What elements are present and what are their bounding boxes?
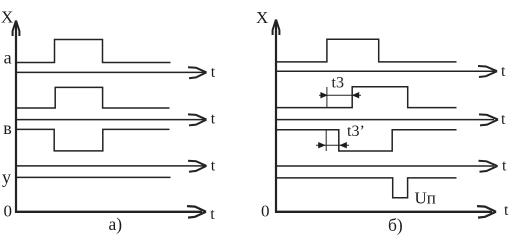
svg-text:t: t <box>502 157 507 174</box>
svg-text:t: t <box>211 158 216 175</box>
svg-text:t: t <box>501 111 506 128</box>
right bottom time axis (0) <box>275 211 492 213</box>
svg-text:0: 0 <box>4 201 13 220</box>
svg-text:t: t <box>504 202 509 219</box>
right time axis 1 arrowhead <box>478 66 497 77</box>
svg-text:а): а) <box>109 214 123 234</box>
svg-text:t: t <box>501 63 506 80</box>
right time axis 2 <box>276 119 494 121</box>
svg-text:t: t <box>211 111 216 128</box>
right time axis 1 <box>276 70 494 72</box>
left diagram vertical axis X <box>15 21 17 214</box>
left axis up-arrowhead <box>13 21 20 37</box>
left bottom time axis (0) <box>15 211 202 213</box>
t3 right dimension arrowhead <box>352 92 360 98</box>
right axis up-arrowhead <box>273 20 280 36</box>
waveform 2 (left, pulse) <box>16 87 170 108</box>
right time axis 3 arrowhead <box>479 161 498 172</box>
svg-text:t3’: t3’ <box>347 123 365 140</box>
right time axis 2 arrowhead <box>479 114 498 125</box>
left time axis 3 arrowhead <box>188 161 207 172</box>
waveform 3 (right, inverted delayed pulse) <box>276 130 457 151</box>
t3' reference tick <box>325 130 327 151</box>
svg-text:0: 0 <box>261 201 270 220</box>
waveform 2 (right, delayed pulse) <box>276 87 457 108</box>
t3 reference tick <box>326 87 328 108</box>
waveform v (left, inverted pulse) <box>16 129 170 151</box>
waveform a (left, pulse) <box>16 40 171 63</box>
svg-text:X: X <box>256 8 268 27</box>
left time axis 2 arrowhead <box>188 114 207 125</box>
waveform 4 (right, line with Up dip) <box>276 178 457 198</box>
right bottom axis arrowhead <box>477 206 496 218</box>
left time axis 1 arrowhead <box>188 67 207 78</box>
svg-text:Uп: Uп <box>415 188 436 207</box>
t3 left dimension arrowhead <box>320 92 328 98</box>
left bottom axis arrowhead <box>187 206 206 218</box>
svg-text:X: X <box>1 8 13 27</box>
t3' dimension line <box>316 144 349 146</box>
t3' left dimension arrowhead <box>318 142 326 148</box>
left time axis 2 <box>16 119 204 121</box>
svg-text:t3: t3 <box>332 75 344 92</box>
svg-text:в: в <box>3 118 12 138</box>
svg-text:б): б) <box>388 215 403 235</box>
t3' right dimension arrowhead <box>339 142 347 148</box>
svg-text:t: t <box>211 64 216 81</box>
svg-text:t: t <box>210 206 215 223</box>
svg-text:а: а <box>4 48 12 68</box>
right time axis 3 <box>276 165 494 167</box>
left time axis 1 <box>16 71 204 73</box>
waveform y (left, flat line) <box>16 176 171 178</box>
left time axis 3 <box>16 165 204 167</box>
waveform 1 (right, pulse) <box>276 39 457 62</box>
right diagram vertical axis X <box>275 20 277 214</box>
svg-text:у: у <box>2 167 11 187</box>
t3 dimension line <box>319 94 361 96</box>
